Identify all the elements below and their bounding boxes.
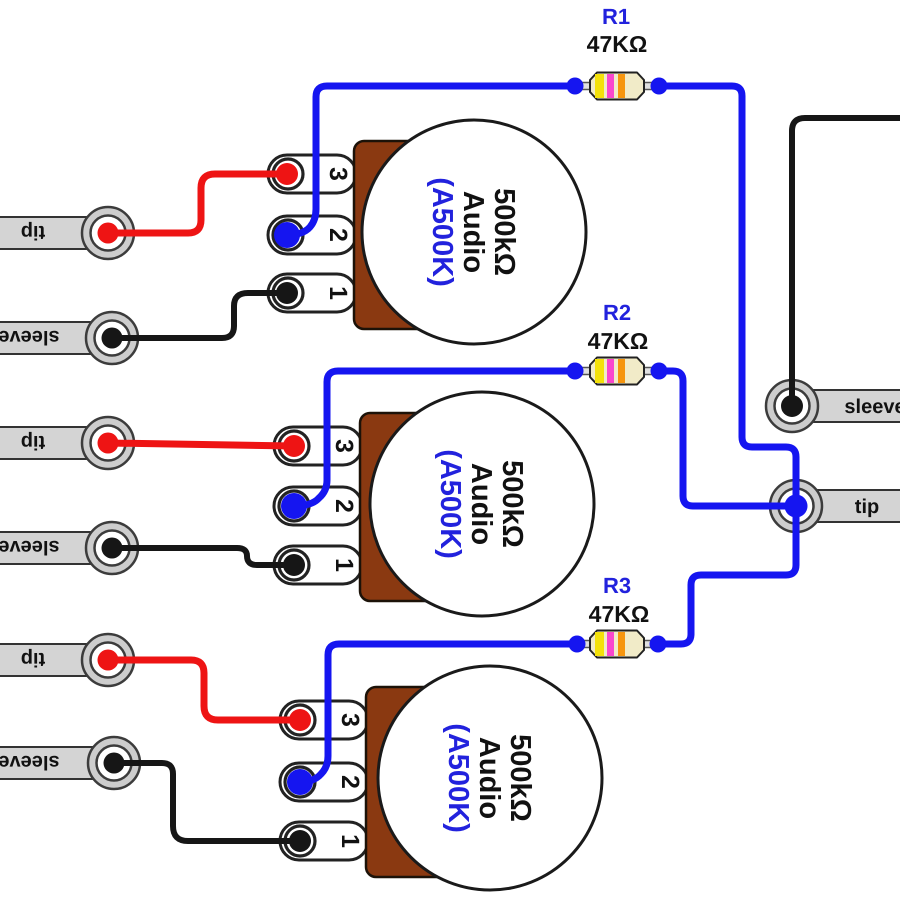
wire: VR3 lug 2 wiper to R3 left (blue) (300, 644, 577, 782)
potentiometer VR2 body (brown case) (360, 413, 448, 601)
pot 3 pin number 3 (336, 713, 364, 727)
node: R3 right junction (650, 636, 667, 653)
pot 1 pin number 3 (324, 167, 352, 181)
node: output sleeve contact (781, 395, 803, 417)
node: input 2 sleeve contact (102, 538, 123, 559)
resistor R3 body 47K (590, 631, 644, 658)
svg-text:500kΩ: 500kΩ (496, 460, 528, 548)
wire: input 3 sleeve to VR3 lug 1 (black) (114, 763, 300, 841)
svg-text:(A500K): (A500K) (442, 723, 474, 833)
svg-text:sleeve: sleeve (0, 536, 60, 558)
input jack label "sleeve" (rotated 180) (0, 751, 60, 773)
potentiometer VR1 disc (362, 120, 586, 344)
svg-text:1: 1 (324, 286, 352, 300)
svg-text:R2: R2 (603, 300, 631, 325)
node: VR3 lug 1 solder dot (289, 830, 311, 852)
resistor R2 leads (577, 368, 594, 375)
node: VR2 lug 3 solder dot (283, 435, 305, 457)
pot 2 pin number 1 (330, 558, 358, 572)
pot 3 lug 1 terminal (280, 822, 368, 860)
potentiometer VR3 disc (378, 666, 602, 890)
node: R1 right junction (651, 78, 668, 95)
input jack sleeve lug (left) (0, 737, 140, 789)
node: input 1 sleeve contact (102, 328, 123, 349)
node: input 2 tip contact (98, 433, 119, 454)
node: R3 left junction (569, 636, 586, 653)
pot 2 lug 1 terminal (274, 546, 362, 584)
svg-text:3: 3 (324, 167, 352, 181)
pot 1 lug 3 terminal (268, 155, 356, 193)
resistor R1 body 47K (590, 73, 644, 100)
svg-text:tip: tip (855, 496, 879, 518)
svg-text:1: 1 (330, 558, 358, 572)
node: R2 right junction (651, 363, 668, 380)
wire: VR2 lug 2 wiper to R2 left (blue) (294, 371, 575, 506)
svg-text:1: 1 (336, 834, 364, 848)
resistor R3 leads (579, 641, 594, 648)
wire: R2 body span (blue) (575, 368, 659, 375)
resistor R2 body 47K (590, 358, 644, 385)
svg-text:Audio: Audio (473, 737, 505, 819)
svg-text:sleeve: sleeve (0, 326, 60, 348)
pot 1 lug 2 terminal (268, 216, 356, 254)
svg-text:47KΩ: 47KΩ (589, 601, 650, 627)
node: VR1 lug 3 solder dot (276, 163, 298, 185)
node: VR2 lug 2 solder dot (281, 493, 307, 519)
input jack tip lug (left) (0, 634, 134, 686)
svg-text:2: 2 (330, 499, 358, 513)
pot 3 lug 3 terminal (280, 701, 368, 739)
potentiometer VR3 value label 500k Audio (A500K) (442, 723, 536, 833)
wire: input 3 tip to VR3 lug 3 (red) (108, 660, 300, 720)
svg-text:sleeve: sleeve (844, 396, 900, 418)
node: output tip junction (785, 495, 808, 518)
node: input 3 sleeve contact (104, 753, 125, 774)
svg-text:sleeve: sleeve (0, 751, 60, 773)
input jack label "sleeve" (rotated 180) (0, 326, 60, 348)
potentiometer VR2 value label 500k Audio (A500K) (434, 449, 528, 559)
svg-text:2: 2 (324, 228, 352, 242)
pot 1 lug 1 terminal (268, 274, 356, 312)
svg-text:47KΩ: 47KΩ (588, 328, 649, 354)
resistor R1 leads (577, 83, 594, 90)
pot 3 lug 2 terminal (280, 763, 368, 801)
potentiometer VR1 body (brown case) (354, 141, 442, 329)
svg-text:(A500K): (A500K) (434, 449, 466, 559)
input jack label "tip" (rotated 180) (21, 221, 45, 243)
wire: input 2 sleeve to VR2 lug 1 (black) (112, 548, 294, 565)
pot 2 pin number 3 (330, 439, 358, 453)
output jack tip lug (right) (770, 480, 900, 532)
pot 1 pin number 2 (324, 228, 352, 242)
pot 3 pin number 1 (336, 834, 364, 848)
svg-text:tip: tip (21, 221, 45, 243)
svg-text:tip: tip (21, 431, 45, 453)
pot 2 lug 2 terminal (274, 487, 362, 525)
wire: VR1 lug 2 wiper to R1 left (blue) (287, 86, 575, 235)
output jack sleeve lug (right) (766, 380, 900, 432)
potentiometer VR3 body (brown case) (366, 687, 454, 877)
wire: output sleeve up and out right (black) (792, 118, 900, 398)
svg-text:R1: R1 (602, 4, 630, 29)
svg-text:3: 3 (336, 713, 364, 727)
svg-text:R3: R3 (603, 573, 631, 598)
wire: R1 body span (blue) (575, 83, 659, 90)
pot 2 pin number 2 (330, 499, 358, 513)
input jack sleeve lug (left) (0, 312, 138, 364)
node: VR3 lug 3 solder dot (289, 709, 311, 731)
input jack sleeve lug (left) (0, 522, 138, 574)
input jack tip lug (left) (0, 207, 134, 259)
svg-text:Audio: Audio (465, 463, 497, 545)
wire: R2 right to output tip node (blue) (659, 371, 796, 506)
node: R2 left junction (567, 363, 584, 380)
input jack tip lug (left) (0, 417, 134, 469)
potentiometer VR1 value label 500k Audio (A500K) (426, 177, 520, 287)
potentiometer VR2 disc (370, 392, 594, 616)
svg-text:2: 2 (336, 775, 364, 789)
node: VR3 lug 2 solder dot (287, 769, 313, 795)
svg-text:tip: tip (21, 648, 45, 670)
wire: input 1 tip to VR1 lug 3 (red) (108, 174, 287, 233)
svg-text:Audio: Audio (457, 191, 489, 273)
node: VR1 lug 2 solder dot (274, 222, 300, 248)
input jack label "sleeve" (rotated 180) (0, 536, 60, 558)
wire: input 2 tip to VR2 lug 3 (red) (108, 443, 294, 446)
svg-text:500kΩ: 500kΩ (504, 734, 536, 822)
node: VR2 lug 1 solder dot (283, 554, 305, 576)
node: R1 left junction (567, 78, 584, 95)
wire: R1 right down to output tip node and on to R3 right (blue) (658, 86, 796, 644)
input jack label "tip" (rotated 180) (21, 431, 45, 453)
svg-text:47KΩ: 47KΩ (587, 31, 648, 57)
pot 3 pin number 2 (336, 775, 364, 789)
svg-text:3: 3 (330, 439, 358, 453)
pot 2 lug 3 terminal (274, 427, 362, 465)
wire: input 1 sleeve to VR1 lug 1 (black) (112, 293, 287, 338)
input jack label "tip" (rotated 180) (21, 648, 45, 670)
svg-text:500kΩ: 500kΩ (488, 188, 520, 276)
wire: R3 body span (blue) (577, 641, 658, 648)
pot 1 pin number 1 (324, 286, 352, 300)
svg-text:(A500K): (A500K) (426, 177, 458, 287)
node: VR1 lug 1 solder dot (276, 282, 298, 304)
node: input 3 tip contact (98, 650, 119, 671)
node: input 1 tip contact (98, 223, 119, 244)
